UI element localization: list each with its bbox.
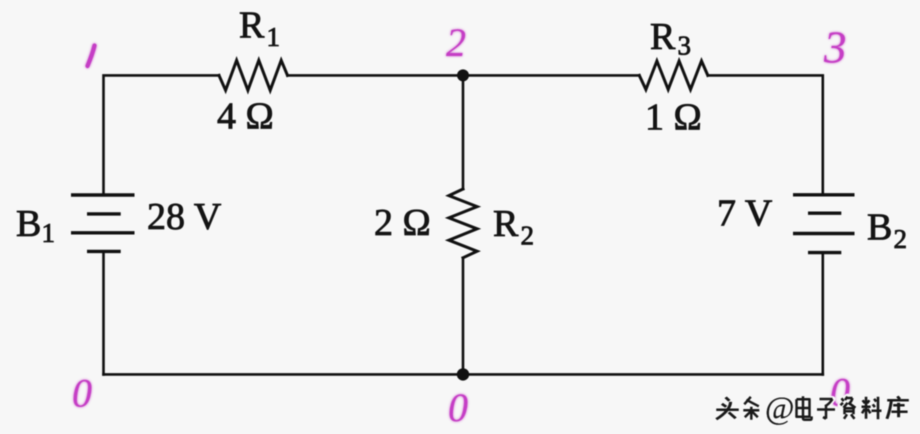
node junction dot 2 (top) [457, 69, 469, 81]
watermark char zi (capital) [841, 397, 856, 419]
svg-text:R: R [650, 16, 676, 58]
svg-text:2: 2 [894, 224, 908, 254]
watermark char zi (child) [817, 399, 835, 419]
resistor R1 [219, 60, 288, 90]
wire left lower (B1 to bottom corner) [102, 251, 105, 374]
svg-text:1 Ω: 1 Ω [645, 97, 702, 139]
svg-text:B: B [867, 207, 892, 249]
svg-text:@: @ [765, 390, 794, 426]
battery B2 [793, 195, 855, 253]
svg-text:R: R [493, 203, 519, 245]
svg-text:1: 1 [42, 218, 56, 248]
wire right lower (B2 to bottom corner) [821, 253, 824, 375]
svg-text:R: R [239, 5, 265, 47]
watermark char dian (electric) [797, 396, 812, 420]
svg-text:2: 2 [446, 20, 466, 65]
watermark char zi (child) [817, 399, 835, 419]
watermark black strokes [716, 396, 909, 420]
svg-text:4 Ω: 4 Ω [217, 96, 274, 138]
resistor R3 [639, 61, 708, 90]
svg-text:0: 0 [72, 371, 92, 416]
watermark char dian (electric) [797, 396, 812, 420]
watermark char liao [862, 397, 882, 420]
node labels blurred halo underlay [72, 20, 850, 430]
watermark char tou (head) [716, 397, 739, 419]
svg-text:1: 1 [267, 22, 281, 52]
svg-text:7 V: 7 V [717, 193, 773, 235]
watermark char tiao [743, 397, 759, 420]
watermark char zi (capital) [841, 397, 856, 419]
resistor R2 [449, 189, 477, 258]
watermark char liao [862, 397, 882, 420]
wire middle lower (R2 to node 0) [462, 258, 465, 375]
wire top-left (node1 to R1) [104, 75, 220, 195]
wire bottom (left corner to right corner) [104, 373, 823, 376]
wire top-right (R3 to node 3 corner down to B2) [708, 75, 823, 194]
svg-text:28 V: 28 V [147, 196, 222, 238]
watermark char ku (warehouse) [887, 396, 909, 419]
wire top-middle (R1 to R3 through node 2) [288, 74, 640, 77]
watermark char tiao [743, 397, 759, 420]
svg-text:3: 3 [678, 31, 692, 61]
node junction dot 0 (bottom) [457, 368, 469, 380]
svg-text:3: 3 [823, 23, 847, 73]
svg-text:0: 0 [448, 385, 468, 430]
svg-text:2: 2 [521, 221, 535, 251]
svg-text:2 Ω: 2 Ω [374, 202, 431, 244]
watermark char tou (head) [716, 397, 739, 419]
watermark char ku (warehouse) [887, 396, 909, 419]
svg-text:B: B [16, 203, 41, 245]
battery B1 [71, 195, 135, 251]
wire middle upper (node 2 to R2) [462, 75, 465, 189]
watermark white glow underlay [716, 396, 909, 420]
node label 1 (magenta) [88, 46, 95, 67]
